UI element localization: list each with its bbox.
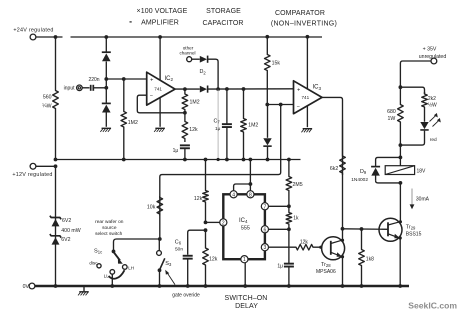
resistor 12k feedback [182, 113, 198, 142]
svg-text:7: 7 [264, 204, 267, 210]
wire LED return [400, 131, 424, 146]
zener D 6V2 lower [50, 234, 61, 245]
junction minus 280 [279, 103, 283, 107]
svg-text:15k: 15k [272, 61, 281, 67]
wire IC3 ground leg [306, 106, 308, 128]
svg-text:741: 741 [302, 95, 310, 100]
svg-text:COMPARATOR: COMPARATOR [275, 10, 325, 17]
junction Tr28 collector node [341, 227, 345, 231]
junction S3 rail [158, 284, 162, 288]
resistor 1M2 bleed [241, 89, 259, 160]
junction C6 tap [204, 228, 208, 232]
svg-text:½W: ½W [428, 102, 437, 109]
wire 0V rail [35, 285, 409, 288]
riser 555 supply [249, 158, 253, 186]
wire storage node [208, 88, 294, 90]
svg-text:MPSA06: MPSA06 [316, 269, 336, 275]
pin 1 [241, 256, 248, 264]
wire 1u to +12V rail [183, 148, 187, 161]
svg-text:8: 8 [249, 192, 252, 198]
wire faint stub [217, 89, 220, 161]
pin 7 [261, 203, 268, 211]
op-amp IC3 741 [294, 81, 323, 114]
svg-text:2k2: 2k2 [428, 96, 436, 102]
junction 1M2 bias rail [122, 158, 126, 162]
wire to S1c [114, 239, 160, 251]
label x100 voltage amplifier [130, 8, 188, 26]
wire Tr29 emitter [398, 236, 402, 288]
junction +24V x267 [265, 35, 269, 39]
ground IC2 [154, 128, 165, 132]
wire +12V rail [56, 159, 301, 161]
svg-text:12k: 12k [209, 256, 218, 262]
wire IC2 ground leg [159, 98, 161, 127]
contact disc [89, 260, 101, 268]
junction +24V x55 [54, 35, 58, 39]
junction clamp rail [266, 158, 270, 162]
wire +35V [400, 61, 431, 87]
svg-text:IC4: IC4 [239, 218, 248, 224]
ground 0V rail [78, 286, 89, 295]
wire LED branch top [400, 87, 424, 94]
wire IC2 V+ supply [159, 37, 161, 80]
svg-text:1k8: 1k8 [366, 256, 374, 262]
label 400mW [61, 228, 80, 234]
junction feedback node [183, 111, 187, 115]
svg-text:select switch: select switch [95, 231, 123, 237]
svg-text:S3: S3 [165, 261, 172, 267]
wire minus input [267, 104, 293, 106]
wire pin7 [268, 205, 289, 207]
terminal +12V regulated [12, 163, 57, 178]
relay coil 18V [385, 166, 426, 175]
wire pin3 [268, 246, 294, 248]
svg-text:+12V regulated: +12V regulated [12, 172, 52, 178]
junction IC2 output [183, 87, 187, 91]
svg-text:Tr29: Tr29 [406, 225, 416, 231]
wire other channel to D2 [192, 58, 200, 60]
wire relay to Tr29 [399, 183, 401, 222]
label switch-on delay [225, 295, 268, 310]
svg-text:unregulated: unregulated [419, 54, 447, 60]
svg-text:+: + [297, 87, 300, 93]
svg-text:680: 680 [387, 109, 396, 115]
label storage capacitor [202, 8, 243, 27]
junction storage 1M2 [242, 87, 246, 91]
svg-text:1μ: 1μ [215, 126, 221, 132]
svg-text:1M2: 1M2 [190, 100, 200, 106]
switch S1c pole [112, 250, 123, 264]
svg-text:LL: LL [104, 274, 110, 279]
wire pin6 [268, 228, 289, 230]
svg-text:18V: 18V [417, 168, 427, 174]
svg-text:3: 3 [264, 245, 267, 251]
svg-text:input: input [64, 86, 75, 92]
junction 1k8 tap [360, 227, 364, 231]
junction LED return [399, 143, 403, 147]
IC IC4 555 box [223, 194, 265, 259]
watermark SeekIC.com [408, 301, 457, 311]
wire IC2 output [175, 88, 200, 90]
wire D2 down [208, 59, 219, 89]
junction pin2 tap [204, 221, 208, 225]
wire clamp vertical [105, 37, 107, 127]
resistor 12k lower [203, 230, 218, 286]
svg-text:−: − [297, 104, 300, 110]
resistor 2M5 [286, 158, 303, 207]
wafer arc [109, 270, 125, 278]
junction C7 rail [225, 158, 229, 162]
pin 8 [247, 191, 254, 199]
svg-text:6: 6 [264, 227, 267, 233]
resistor 1M2 bias [121, 79, 138, 160]
op-amp IC2 741 [147, 72, 175, 105]
diode D2 [200, 56, 208, 76]
svg-text:C6: C6 [175, 239, 182, 245]
capacitor C6 50n [175, 239, 193, 286]
svg-text:¼W: ¼W [42, 103, 51, 109]
resistor 15k [265, 37, 281, 105]
svg-text:10k: 10k [147, 204, 156, 210]
label rear wafer [95, 219, 124, 237]
wire minus to 10k [160, 105, 281, 240]
contact LH [123, 265, 135, 271]
junction +24V x307 [306, 35, 310, 39]
wire LL to 0V [110, 274, 114, 288]
wire diode clamp leg [267, 105, 269, 160]
svg-text:channel: channel [179, 51, 195, 56]
svg-text:1k: 1k [293, 216, 299, 222]
wire Tr28 emitter [341, 255, 345, 288]
svg-text:0V: 0V [23, 284, 30, 290]
svg-text:12k: 12k [194, 196, 203, 202]
wire +24V rail [36, 36, 322, 38]
wire input to cap [82, 87, 89, 89]
svg-text:S1c: S1c [94, 249, 102, 255]
junction D2 storage [216, 87, 220, 91]
pin 4 [230, 191, 237, 199]
junction C6 rail [186, 284, 190, 288]
junction +24V x160 [158, 35, 162, 39]
svg-text:rear wafer on: rear wafer on [95, 219, 124, 225]
wire pins 4-8 tie [234, 184, 251, 191]
junction D9 top [399, 156, 403, 160]
svg-text:6V2: 6V2 [61, 237, 70, 243]
svg-text:D9: D9 [360, 169, 367, 175]
svg-text:741: 741 [154, 87, 162, 92]
junction LED branch [399, 85, 403, 89]
svg-text:STORAGE: STORAGE [206, 8, 241, 15]
svg-text:other: other [183, 45, 194, 50]
svg-text:SeekIC.com: SeekIC.com [408, 301, 457, 311]
svg-text:DELAY: DELAY [235, 303, 258, 310]
junction 12k lower rail [204, 284, 208, 288]
junction minus 15k [265, 103, 269, 107]
wire zener chain [55, 166, 57, 286]
contact LL [104, 270, 115, 279]
svg-text:2: 2 [222, 220, 225, 226]
ground IC3 [301, 129, 312, 133]
svg-text:+: + [150, 78, 153, 84]
svg-text:+24V regulated: +24V regulated [13, 28, 53, 34]
svg-text:1M2: 1M2 [248, 122, 258, 128]
wire pin2 [206, 221, 220, 223]
wire 680 to relay [399, 145, 401, 166]
junction 1u timing rail [287, 284, 291, 288]
svg-text:+ 35V: + 35V [423, 46, 437, 52]
arrow gate override [165, 270, 175, 285]
svg-text:−: − [150, 94, 153, 100]
resistor 10k [147, 196, 163, 216]
terminal input jack [77, 85, 83, 91]
LED red [420, 113, 441, 143]
svg-text:555: 555 [241, 226, 250, 232]
svg-text:50n: 50n [175, 247, 183, 253]
junction Tr28 collector [341, 239, 344, 242]
diode clamp to +12V [263, 138, 271, 146]
junction switch node [158, 237, 162, 241]
resistor 2k2 halfW [422, 92, 437, 122]
switch S3 [157, 239, 165, 286]
junction 1k8 rail [360, 284, 364, 288]
terminal other channel [179, 45, 195, 61]
svg-text:1W: 1W [388, 116, 396, 122]
resistor 1M2 feedback [182, 89, 200, 113]
resistor 680 1W [387, 87, 403, 145]
svg-text:Tr28: Tr28 [321, 262, 331, 268]
wire cap to node [93, 87, 106, 89]
svg-text:CAPACITOR: CAPACITOR [202, 20, 243, 27]
junction +12V rail tap [54, 158, 58, 162]
junction storage C7 [225, 87, 229, 91]
transistor Tr28 MPSA06 [316, 237, 345, 275]
capacitor C7 1u [214, 89, 232, 160]
wire zeners to 0V [54, 284, 58, 288]
svg-text:12k: 12k [189, 127, 198, 133]
svg-text:6V2: 6V2 [62, 218, 71, 224]
diode clamp to +24V [102, 52, 111, 61]
terminal 0V [23, 283, 35, 290]
wire IC2 feedback [137, 95, 185, 113]
svg-text:IC2: IC2 [165, 76, 174, 82]
capacitor 220n [88, 77, 99, 91]
resistor 12k upper [194, 158, 208, 223]
svg-text:2M5: 2M5 [293, 182, 303, 188]
svg-text:400 mW: 400 mW [61, 228, 80, 234]
svg-text:12k: 12k [300, 240, 309, 246]
svg-text:source: source [102, 225, 117, 231]
svg-text:1μ: 1μ [173, 148, 179, 154]
junction D9 bottom [399, 181, 403, 185]
svg-text:D2: D2 [200, 69, 207, 75]
svg-text:×100 VOLTAGE: ×100 VOLTAGE [137, 8, 188, 15]
junction pin7 node [287, 204, 291, 208]
resistor 1k [286, 206, 299, 229]
diode clamp to ground [102, 103, 111, 112]
svg-text:4: 4 [232, 192, 235, 198]
ground input clamp [100, 128, 111, 132]
svg-text:LH: LH [128, 265, 134, 270]
label input [64, 86, 75, 92]
capacitor 1u feedback [173, 145, 190, 153]
diode D9 1N4002 [351, 157, 400, 183]
junction Tr29 collector [399, 220, 402, 223]
svg-text:1M2: 1M2 [128, 120, 138, 126]
resistor 12k base [295, 240, 322, 250]
label gate override [172, 292, 200, 298]
svg-text:1μ: 1μ [277, 264, 283, 270]
label S1c [94, 249, 102, 255]
wire IC3 output [322, 97, 343, 156]
label comparator non-inverting [271, 10, 337, 27]
svg-text:BSS15: BSS15 [406, 232, 422, 238]
diode D3 [200, 86, 208, 93]
svg-text:1: 1 [243, 257, 246, 263]
transistor Tr29 BSS15 [379, 218, 422, 241]
svg-text:C7: C7 [214, 119, 221, 125]
zener D 6V2 upper [50, 216, 61, 227]
wire pin1 ground [243, 263, 247, 288]
svg-text:SWITCH–ON: SWITCH–ON [225, 295, 268, 302]
junction +24V x106 [104, 35, 108, 39]
arrow 30mA [410, 189, 430, 210]
svg-text:6k2: 6k2 [330, 166, 338, 172]
wire IC3 V+ supply [306, 37, 308, 89]
wire Tr29 base [343, 228, 389, 231]
resistor 560 quarter-W [42, 37, 58, 160]
svg-text:IC3: IC3 [313, 85, 322, 91]
terminal +35V unregulated [419, 46, 447, 64]
resistor 6k2 [330, 120, 345, 175]
svg-text:(NON–INVERTING): (NON–INVERTING) [271, 20, 337, 27]
junction bias 1M2 [122, 77, 126, 81]
svg-text:560: 560 [43, 95, 52, 101]
wire node to +input [106, 78, 146, 80]
svg-text:30mA: 30mA [416, 197, 430, 203]
svg-text:gate overide: gate overide [172, 292, 200, 298]
pin 6 [261, 226, 268, 234]
capacitor 1u timing [277, 229, 294, 286]
pin 3 [261, 244, 268, 252]
resistor 1k8 [359, 229, 374, 286]
svg-text:AMPLIFIER: AMPLIFIER [141, 20, 179, 27]
wire 6k2 leg [342, 157, 344, 241]
label 6V2 lower [61, 237, 70, 243]
svg-text:1N4002: 1N4002 [351, 177, 368, 183]
terminal +24V regulated [13, 28, 53, 40]
pin 2 [220, 219, 227, 227]
svg-text:220n: 220n [88, 77, 99, 83]
label 6V2 upper [62, 218, 71, 224]
label S3 [165, 261, 172, 267]
junction 1M2 bleed rail [242, 158, 246, 162]
junction pin6 node [287, 227, 291, 231]
wire C6 link [188, 230, 206, 255]
node input clamp [104, 77, 108, 90]
svg-text:red: red [430, 137, 437, 143]
